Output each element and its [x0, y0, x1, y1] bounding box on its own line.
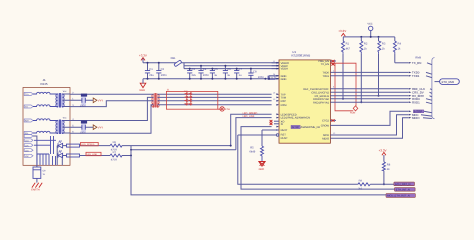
- wire VDDIO rail: [143, 62, 279, 64]
- resistor RT4: [185, 103, 187, 106]
- svg-text:4k7: 4k7: [346, 48, 351, 51]
- resistor RN2 box: [67, 154, 80, 157]
- label LED_LINK at J1: [86, 152, 101, 156]
- node label ETH_INT_N: [395, 188, 416, 192]
- svg-text:LED_LINK: LED_LINK: [87, 153, 98, 156]
- pin XI noconnect: [270, 123, 284, 126]
- svg-text:CROW: CROW: [321, 125, 330, 128]
- pin RXD0: [313, 98, 330, 101]
- capacitor C1: [145, 62, 154, 80]
- pin REXT: [276, 129, 288, 132]
- node REF_CLK: [409, 88, 412, 90]
- svg-text:C7: C7: [239, 68, 243, 71]
- pin VDDC: [272, 65, 288, 68]
- svg-text:TXD1: TXD1: [322, 75, 329, 78]
- capacitor C5: [210, 68, 218, 80]
- svg-text:R5: R5: [250, 147, 254, 150]
- svg-text:100n: 100n: [161, 74, 167, 77]
- wire top rail: [343, 36, 395, 38]
- resistor R7: [80, 151, 131, 161]
- wire TXM to PHY: [160, 96, 272, 98]
- svg-text:100n: 100n: [80, 105, 86, 108]
- pin RXD1: [313, 101, 330, 104]
- svg-text:RJ45: RJ45: [41, 82, 48, 86]
- svg-text:VYY: VYY: [98, 100, 104, 103]
- svg-text:GND: GND: [259, 168, 265, 171]
- wire PME red strap loop: [330, 63, 356, 111]
- LED D1: [34, 140, 67, 165]
- svg-text:RUST: RUST: [281, 137, 288, 140]
- SECTION: middle nets: [70, 89, 272, 162]
- pin REF_CLK: [303, 88, 329, 91]
- svg-text:+3.3V: +3.3V: [379, 148, 387, 152]
- node flag RX-: [24, 132, 33, 136]
- svg-text:R4: R4: [398, 43, 402, 46]
- svg-text:KSZ8081RNB: KSZ8081RNB: [291, 53, 310, 57]
- svg-text:22u: 22u: [149, 74, 154, 77]
- svg-text:C4: C4: [203, 68, 207, 71]
- wire junction R6R7: [131, 146, 236, 156]
- wire INT to bus: [330, 111, 408, 125]
- svg-text:C8: C8: [253, 71, 257, 74]
- pin MDIO: [322, 137, 329, 140]
- svg-text:MCU_ETH_RST_N: MCU_ETH_RST_N: [387, 195, 410, 198]
- resistor network termination box: [166, 89, 217, 110]
- svg-text:ETH_INT_N: ETH_INT_N: [396, 189, 410, 192]
- node TXD1: [409, 75, 412, 77]
- wire TX- J1 to choke: [70, 101, 152, 107]
- pin TXD1: [322, 75, 329, 78]
- wire TXD1: [330, 75, 408, 77]
- svg-text:R7: R7: [113, 151, 117, 154]
- node RXD1: [409, 101, 412, 103]
- svg-text:ETH: ETH: [225, 108, 230, 111]
- wire LED junction down to bottom label: [131, 156, 386, 195]
- wire RX_ER: [330, 95, 408, 97]
- SECTION: J1 connector: [23, 78, 80, 191]
- resistor RN1 box: [67, 144, 80, 147]
- wire LED_SPEED to PHY: [231, 114, 272, 145]
- wire INTRP down to ETH_INT row: [241, 127, 395, 190]
- node flag TX-: [24, 105, 33, 109]
- svg-text:TXD1: TXD1: [412, 74, 420, 78]
- svg-text:C3: C3: [192, 68, 196, 71]
- transformer T1: [56, 90, 70, 108]
- svg-text:ETH_RST_N: ETH_RST_N: [395, 183, 410, 186]
- connector J1 box: [23, 88, 70, 166]
- op-amp U1 body: [279, 60, 330, 143]
- label LED_SPEED at J1: [81, 142, 99, 146]
- svg-text:22u: 22u: [192, 74, 197, 77]
- svg-text:2k2: 2k2: [358, 188, 363, 191]
- svg-text:VDDA: VDDA: [281, 68, 288, 71]
- pin CLKO noconnect: [322, 119, 336, 122]
- SECTION: right side: [330, 22, 459, 138]
- svg-text:100n: 100n: [203, 74, 209, 77]
- node label MCU_ETH_RST: [386, 194, 415, 198]
- svg-text:LED_SPEED: LED_SPEED: [81, 143, 94, 146]
- wire shield to earth: [33, 136, 37, 167]
- svg-text:RXD1: RXD1: [412, 100, 420, 104]
- bus ETH_RMII vertical: [432, 58, 435, 119]
- wire comb bottom pins: [37, 154, 56, 165]
- ground EARTH: [31, 183, 42, 192]
- svg-text:LED_LINK: LED_LINK: [243, 115, 255, 118]
- SECTION: power rail top: [139, 53, 279, 92]
- svg-text:100n: 100n: [80, 132, 86, 135]
- wire REF_CLK: [330, 88, 408, 90]
- node MDIO: [409, 117, 412, 119]
- pin GND1: [269, 75, 286, 79]
- pin TXM: [276, 97, 286, 100]
- node flag RX+: [24, 119, 33, 123]
- node MDC: [409, 114, 412, 116]
- resistor R6: [80, 141, 231, 151]
- node ETH_RMII bus label: [435, 79, 460, 85]
- node INTRP highlighted: [413, 110, 423, 113]
- svg-text:CTG2: CTG2: [322, 120, 329, 123]
- resistor RT5: [189, 92, 191, 95]
- pin TXD0: [322, 72, 329, 75]
- resistor R9: [358, 179, 394, 190]
- svg-text:/NAND/PME_N2: /NAND/PME_N2: [301, 126, 321, 129]
- wire RXD0: [330, 98, 408, 100]
- resistor R8: [382, 162, 390, 186]
- resistor R4: [393, 37, 401, 63]
- pin TXP: [276, 93, 286, 96]
- pin CRS_DV: [311, 91, 329, 94]
- svg-text:MDIO: MDIO: [412, 116, 420, 120]
- pin numbers J1: [72, 91, 74, 133]
- pin LED0: [276, 113, 296, 116]
- pin TX_EN pin noconnect: [321, 63, 335, 66]
- node RXD0: [409, 98, 412, 100]
- svg-text:C5: C5: [214, 68, 218, 71]
- wire TX+ J1 to choke: [70, 93, 152, 95]
- svg-text:TX_EN: TX_EN: [412, 61, 421, 65]
- choke T3 common mode: [152, 93, 160, 108]
- svg-text:C16: C16: [82, 94, 87, 97]
- wire LED_LINK to PHY: [236, 118, 272, 150]
- capacitor C10 center tap 1: [70, 94, 93, 108]
- capacitor C9 earth: [33, 167, 46, 183]
- node TX_EN: [409, 62, 412, 64]
- node flag SHIELD: [24, 135, 33, 138]
- supply +3.3V right: [338, 29, 346, 36]
- svg-text:VYY: VYY: [98, 127, 104, 130]
- pin RXM: [276, 104, 286, 107]
- svg-text:XI: XI: [281, 123, 284, 126]
- capacitor C11 center tap 2: [70, 121, 93, 135]
- wire RXP to PHY: [160, 100, 272, 102]
- resistor RT7: [189, 99, 191, 102]
- wire RXM to PHY: [160, 104, 272, 106]
- resistor R3: [378, 37, 386, 97]
- supply VYY arrow 1: [93, 98, 103, 103]
- svg-text:RXP: RXP: [281, 100, 287, 103]
- svg-text:+3.3V: +3.3V: [338, 29, 346, 33]
- pin RST inverted: [238, 134, 288, 140]
- node CRS_DV: [409, 91, 412, 93]
- svg-text:1u: 1u: [239, 74, 242, 77]
- wire RX+ J1 to choke: [70, 97, 152, 120]
- supply +3.3V pullup: [379, 148, 387, 161]
- svg-text:MDIO: MDIO: [322, 137, 329, 140]
- svg-text:FB1: FB1: [171, 57, 176, 60]
- svg-text:R8: R8: [387, 163, 391, 166]
- svg-text:R6: R6: [113, 141, 117, 144]
- capacitor C3: [187, 68, 196, 80]
- diamond marker: [350, 106, 358, 115]
- svg-text:6k49: 6k49: [249, 151, 255, 154]
- resistor RT6: [189, 96, 191, 99]
- supply VCC circle: [367, 22, 373, 37]
- ground GND at R5: [259, 162, 266, 171]
- ferrite bead FB1: [171, 57, 182, 67]
- wire RX- J1 to choke: [70, 105, 152, 133]
- SECTION: PHY IC: [238, 50, 336, 143]
- wire RST down to ETH_RST row: [238, 135, 358, 184]
- wire TXD0: [330, 71, 408, 73]
- svg-text:GND: GND: [139, 89, 145, 92]
- svg-text:C6: C6: [227, 68, 231, 71]
- svg-text:RMII: RMII: [415, 56, 421, 59]
- pin INTRP highlighted: [276, 125, 320, 129]
- pin XO noconnect: [270, 120, 285, 123]
- resistor R5 RBIAS: [249, 130, 279, 162]
- pin VDDA: [272, 68, 288, 71]
- resistor RT3: [185, 99, 187, 102]
- wire TX_EN: [395, 62, 409, 64]
- resistor RT1: [185, 92, 187, 95]
- node RX_ER: [409, 95, 412, 97]
- supply +3.3V: [139, 53, 147, 62]
- pin INT_N: [321, 125, 330, 128]
- svg-text:ETH_RMII: ETH_RMII: [442, 81, 455, 84]
- capacitor C2: [156, 62, 167, 80]
- capacitor C6: [223, 65, 231, 80]
- svg-text:R3: R3: [382, 43, 386, 46]
- svg-text:R9: R9: [359, 179, 363, 182]
- supply VYY arrow 2: [93, 125, 103, 130]
- resistor RT8: [189, 103, 191, 106]
- svg-text:RXM: RXM: [281, 104, 287, 107]
- node PAD box: [264, 76, 275, 80]
- inductor winding row4: [33, 131, 56, 133]
- node flag LED1K: [24, 144, 33, 148]
- LED D2: [34, 145, 67, 165]
- svg-text:R2: R2: [364, 43, 368, 46]
- svg-text:1u: 1u: [214, 74, 217, 77]
- wire MDIO to bus: [330, 118, 408, 139]
- node ETH marker: [218, 107, 230, 111]
- svg-text:1u: 1u: [227, 74, 230, 77]
- svg-text:EARTH: EARTH: [31, 189, 40, 192]
- svg-text:R1: R1: [346, 43, 350, 46]
- node flag LED1A: [24, 139, 33, 143]
- wire MDC to bus: [330, 115, 408, 135]
- wire TXP to PHY: [160, 93, 272, 95]
- pin number specks: [273, 60, 336, 135]
- pin VDDIO: [272, 62, 289, 65]
- svg-text:LED1/PME_N1/NWAYEN: LED1/PME_N1/NWAYEN: [281, 117, 311, 120]
- svg-text:VCC: VCC: [367, 22, 372, 25]
- svg-text:GND: GND: [281, 78, 287, 81]
- svg-text:RUN: RUN: [350, 111, 355, 114]
- wire CRS_DV: [330, 91, 408, 93]
- bus entries and labels: [409, 61, 432, 120]
- capacitor C7: [234, 68, 242, 80]
- resistor R1: [342, 37, 351, 100]
- svg-text:RXD1/PHYA1: RXD1/PHYA1: [313, 101, 330, 104]
- svg-text:C2: C2: [161, 68, 165, 71]
- svg-text:REXT: REXT: [281, 129, 288, 132]
- node flag LED2A: [24, 149, 33, 153]
- inductor winding row3: [33, 119, 56, 121]
- svg-text:100n: 100n: [258, 76, 264, 79]
- node flag TX+: [24, 93, 33, 97]
- wire VDDA rail3: [184, 68, 279, 70]
- svg-text:INTRP: INTRP: [292, 126, 300, 129]
- capacitor C8: [248, 68, 264, 80]
- pin RXP: [276, 100, 286, 103]
- node label ETH_RST_N: [394, 182, 415, 186]
- wire RXD1: [330, 101, 408, 103]
- pin MDC: [323, 134, 329, 137]
- resistor R2: [360, 37, 368, 103]
- pin GND2: [268, 78, 286, 81]
- pin RX_ER: [315, 95, 330, 98]
- inductor winding row1: [33, 92, 56, 94]
- svg-text:C17: C17: [82, 121, 87, 124]
- wire VDD rail2: [184, 63, 279, 69]
- node TXD0: [409, 72, 412, 74]
- svg-text:+3.3V: +3.3V: [139, 53, 147, 57]
- transformer T2: [56, 116, 70, 134]
- pin PME_EN noconnect: [318, 60, 336, 63]
- wire GND rail: [143, 78, 279, 80]
- pin LED1: [276, 117, 310, 120]
- ground GND: [139, 79, 145, 93]
- svg-text:TX-: TX-: [25, 106, 29, 109]
- svg-text:C1: C1: [149, 68, 153, 71]
- capacitor C4: [198, 65, 209, 80]
- svg-text:475R: 475R: [111, 158, 117, 161]
- SECTION: bottom: [131, 127, 415, 198]
- svg-text:TX_EN: TX_EN: [321, 63, 329, 66]
- node flag LED2K: [24, 154, 33, 158]
- resistor RT2: [185, 96, 187, 99]
- inductor winding row2: [33, 105, 56, 107]
